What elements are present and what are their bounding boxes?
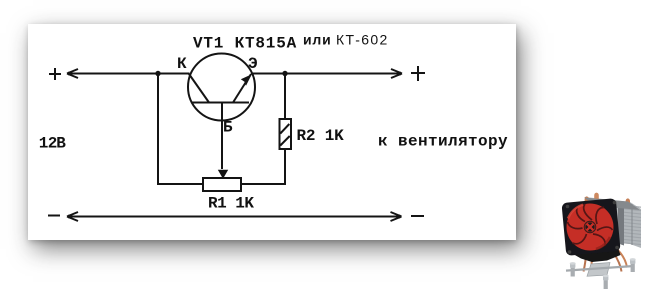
wire R2 to emitter rail [284, 74, 286, 120]
collector stroke [189, 74, 209, 103]
minus terminal right [411, 215, 424, 217]
svg-text:Б: Б [223, 119, 233, 137]
svg-text:В: В [56, 135, 66, 153]
fan frame [561, 198, 620, 256]
mounting bar [566, 266, 634, 271]
minus terminal left [48, 215, 60, 217]
cpu cooler photo [561, 193, 641, 289]
fan corner screws [566, 201, 619, 254]
wire base lead [221, 103, 223, 170]
heat pipes lower [584, 250, 628, 272]
fan hub with logo [584, 221, 596, 233]
heat pipe tips [585, 193, 630, 208]
standoff right [630, 258, 636, 272]
svg-text:к вентилятору: к вентилятору [378, 133, 508, 151]
arrowhead right top [391, 69, 402, 78]
fan blades [567, 204, 614, 251]
wire top rail left [67, 73, 190, 75]
plus terminal left [49, 68, 61, 80]
arrowhead left bottom [67, 212, 78, 221]
base plate [587, 263, 610, 277]
svg-text:R2 1K: R2 1K [297, 127, 345, 145]
arrowhead right bottom [391, 212, 402, 221]
emitter stroke [233, 74, 251, 103]
wire R1 to R2 [241, 150, 285, 184]
plus terminal right [411, 66, 425, 81]
arrowhead left top [67, 69, 78, 78]
svg-text:VT1 КТ815А: VT1 КТ815А [193, 35, 297, 53]
transistor body circle [188, 54, 255, 121]
standoff front [603, 275, 609, 289]
schematic panel [28, 24, 516, 240]
svg-text:К: К [177, 55, 187, 73]
transistor VT1 [188, 54, 255, 121]
node B (emitter junction) [282, 71, 287, 76]
standoff left [570, 262, 576, 276]
fan frame underside [574, 250, 621, 263]
emitter arrowhead [241, 74, 252, 86]
svg-text:R1 1K: R1 1K [208, 195, 254, 213]
wire collector to R1 [158, 74, 202, 185]
wire bottom rail [67, 216, 402, 218]
wiper arrowhead [218, 170, 228, 179]
svg-text:Э: Э [248, 55, 258, 73]
resistor R2 [280, 119, 292, 149]
wire top rail right [251, 73, 402, 75]
svg-text:12: 12 [39, 135, 57, 153]
heatsink top plate [584, 198, 640, 211]
svg-text:илиКТ-602: илиКТ-602 [303, 32, 389, 48]
resistor R1 [203, 178, 241, 191]
node A (collector junction) [155, 71, 160, 76]
base bar [191, 102, 249, 104]
heatsink fin stack right side [585, 197, 641, 248]
